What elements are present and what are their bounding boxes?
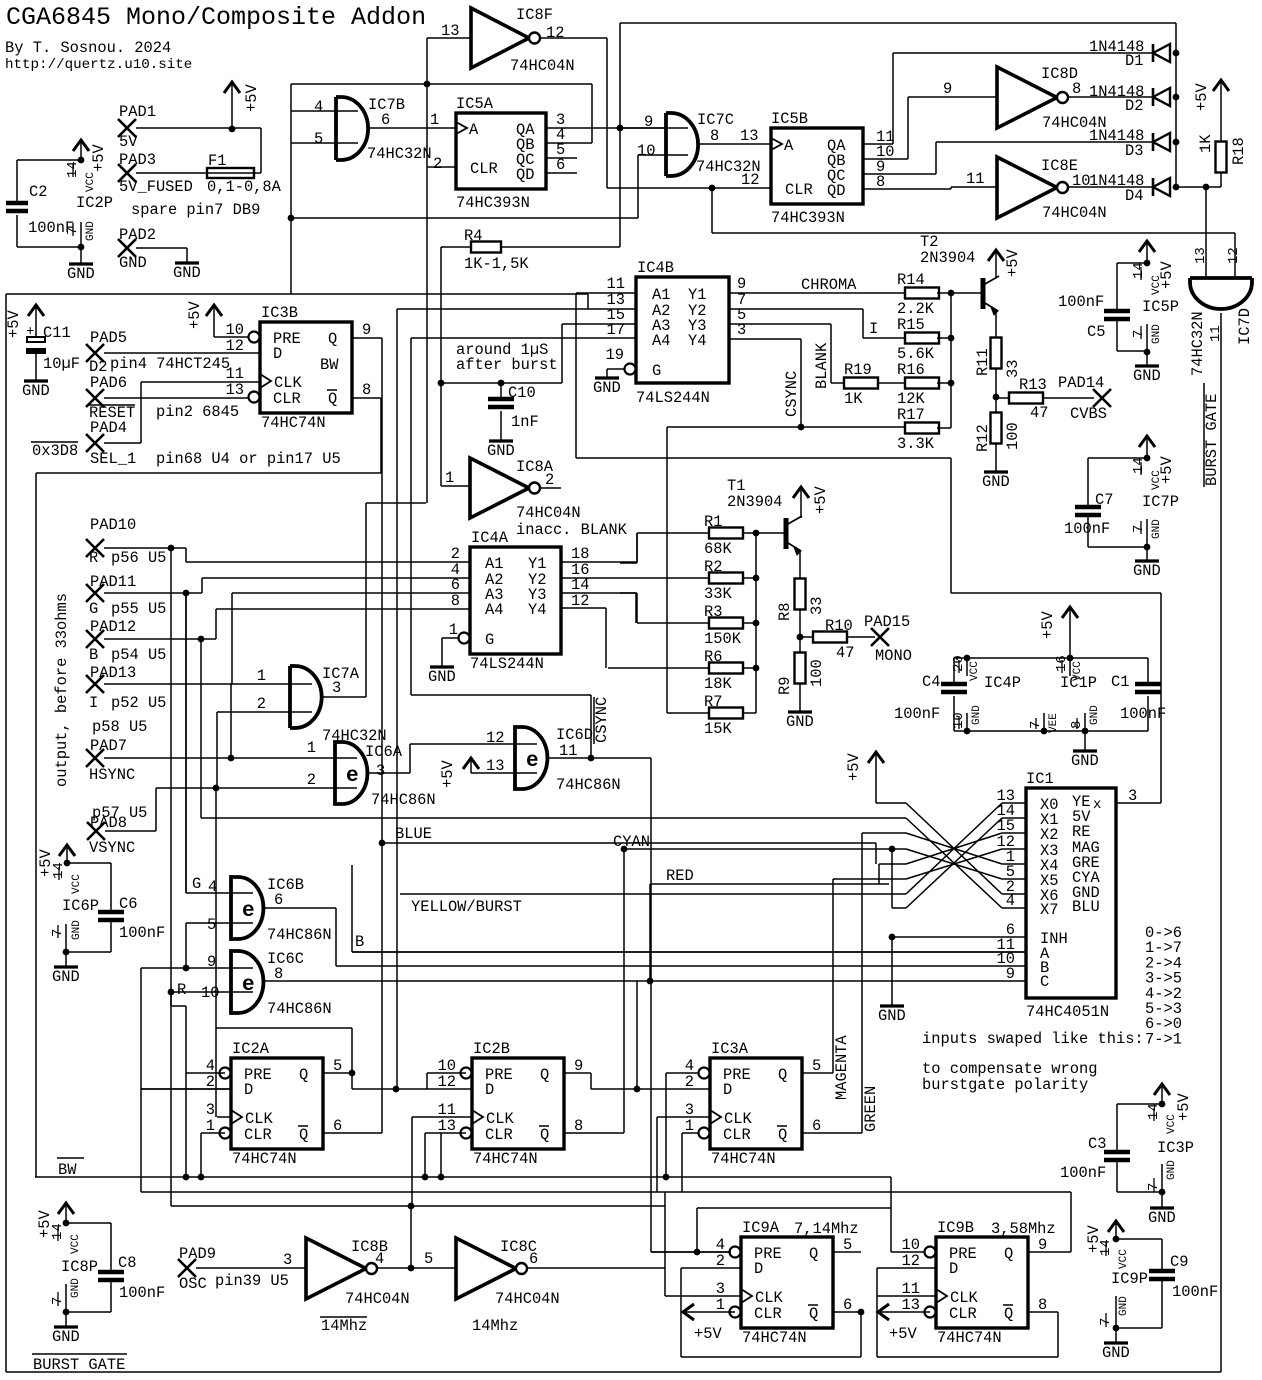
svg-text:8: 8 [1072,80,1081,98]
svg-text:12: 12 [438,1073,456,1091]
wire IC5B QA to D1 [863,143,893,145]
svg-text:D2: D2 [1125,97,1143,115]
svg-text:150K: 150K [704,630,742,648]
wire IC2B Q [563,1072,591,1074]
wire D4 to R18 [1176,186,1221,188]
vcc pin IC1P [1069,658,1071,676]
svg-text:QD: QD [827,182,845,200]
svg-text:IC1P: IC1P [1060,674,1097,692]
wire csync down to IC9A PRE [650,758,652,1252]
flip-flop IC9A [741,1237,833,1328]
svg-text:CLR: CLR [470,160,498,178]
svg-text:GND: GND [1102,1344,1130,1362]
svg-text:74HC74N: 74HC74N [232,1150,297,1168]
svg-text:+5V: +5V [1004,249,1022,277]
svg-text:10: 10 [637,142,655,160]
svg-text:IC5A: IC5A [456,95,494,113]
svg-text:D4: D4 [1125,187,1143,205]
resistor R8 [795,579,806,610]
svg-text:+5V: +5V [1158,261,1176,289]
svg-text:+5V: +5V [1175,1093,1193,1121]
svg-text:GND: GND [1151,519,1163,539]
svg-text:CLR: CLR [785,181,813,199]
wire IC9A D loop [681,1267,741,1269]
svg-text:+5V: +5V [1158,456,1176,484]
svg-text:IC9P: IC9P [1111,1270,1148,1288]
svg-text:100: 100 [808,659,826,687]
svg-text:33: 33 [808,597,826,615]
wire feeds to crossing [876,802,906,804]
svg-text:GND: GND [52,1328,80,1346]
svg-text:74HC74N: 74HC74N [261,414,326,432]
svg-text:CLR: CLR [485,1126,513,1144]
wire to IC7D pin13 [1205,187,1207,278]
svg-text:Q: Q [809,1305,818,1323]
svg-text:+5V: +5V [5,310,23,338]
ground under power block [1084,731,1086,751]
svg-text:A: A [784,137,794,155]
svg-text:74HC74N: 74HC74N [473,1150,538,1168]
wire PAD1 to +5V [136,127,261,129]
svg-text:D: D [949,1260,958,1278]
svg-text:GND: GND [1148,1209,1176,1227]
wire IC9A CLK [665,1295,741,1297]
inverter IC8D [997,67,1057,128]
svg-text:IC3P: IC3P [1157,1139,1194,1157]
wire IC6B pin5 [186,922,253,924]
svg-text:74HC74N: 74HC74N [711,1150,776,1168]
wire csync gating net [411,337,636,339]
counter IC5A [456,113,546,189]
wire IC8C out [527,1267,665,1269]
svg-text:B: B [89,646,98,664]
svg-text:100: 100 [1004,422,1022,450]
svg-text:74LS244N: 74LS244N [636,389,710,407]
svg-text:OSC: OSC [179,1275,207,1293]
wire T1 emitter to R8 [799,551,801,579]
wire IC6D output CSYNC [547,757,651,759]
svg-text:G: G [192,875,201,893]
svg-text:R14: R14 [897,271,925,289]
svg-text:By T. Sosnou. 2024: By T. Sosnou. 2024 [5,39,171,57]
gnd pin IC1P [1084,713,1086,731]
svg-text:6: 6 [381,111,390,129]
svg-text:I: I [869,320,878,338]
flip-flop IC2A [231,1058,323,1149]
wire cyan net [623,849,625,1133]
wire preset net [890,1177,892,1208]
svg-text:IC7P: IC7P [1142,493,1179,511]
svg-text:YELLOW/BURST: YELLOW/BURST [411,898,522,916]
svg-text:C4: C4 [922,673,940,691]
wire top bus y84 [291,83,592,85]
svg-text:BLU: BLU [1072,898,1100,916]
svg-text:100nF: 100nF [1120,705,1166,723]
resistor R9 [799,637,801,653]
svg-text:1: 1 [307,739,316,757]
or-gate IC7A [290,666,322,728]
wire bus y218 [291,217,638,219]
wire left bus y294 [6,293,588,295]
resistor R11 [991,338,1002,369]
svg-text:13: 13 [226,381,244,399]
svg-text:100nF: 100nF [1060,1164,1106,1182]
svg-text:19: 19 [606,346,624,364]
svg-text:PAD6: PAD6 [90,374,127,392]
svg-text:D: D [723,1081,732,1099]
svg-text:10: 10 [1072,172,1090,190]
svg-text:IC5P: IC5P [1142,298,1179,316]
ground under IC2P [80,247,82,264]
svg-text:74HC86N: 74HC86N [267,926,332,944]
svg-text:output, before 33ohms: output, before 33ohms [53,593,71,787]
svg-text:IC4A: IC4A [471,529,509,547]
svg-text:C1: C1 [1111,673,1129,691]
svg-text:X7: X7 [1040,901,1058,919]
svg-text:A: A [469,121,479,139]
svg-text:I: I [89,694,98,712]
vee pin IC1P [1043,713,1045,731]
wire b net [351,865,353,952]
svg-text:11: 11 [966,170,984,188]
wire C2 to IC2P [17,159,81,161]
wire IC8A output [540,487,561,489]
svg-text:C2: C2 [29,183,47,201]
power arrow +5V at T2 [988,250,1004,261]
wire I net [104,683,232,685]
svg-text:R9: R9 [776,677,794,695]
svg-text:1K-1,5K: 1K-1,5K [464,255,529,273]
buffer IC4A 74LS244 [470,547,561,654]
or-gate IC7C [666,113,698,176]
svg-text:74HC86N: 74HC86N [556,776,621,794]
svg-text:10: 10 [201,984,219,1002]
svg-text:8: 8 [362,381,371,399]
wire IC7D output burst gate [1220,313,1222,1372]
svg-text:100nF: 100nF [1064,520,1110,538]
svg-text:IC9B: IC9B [937,1219,974,1237]
svg-text:3.3K: 3.3K [897,435,935,453]
wires IC4B inputs [576,292,636,294]
svg-text:Q: Q [809,1245,818,1263]
svg-text:PAD10: PAD10 [90,516,136,534]
wire IC9B D CLK loop [877,1267,936,1269]
svg-text:Q: Q [299,1066,308,1084]
svg-text:burstgate polarity: burstgate polarity [922,1076,1088,1094]
power group IC6P [59,845,75,856]
svg-text:2: 2 [433,155,442,173]
wire bus y1206 [171,1205,665,1207]
wire B net [104,638,201,640]
svg-text:PAD9: PAD9 [179,1245,216,1263]
svg-text:BLANK: BLANK [813,342,831,389]
wire left vert 427 [426,84,428,503]
svg-text:14: 14 [1131,457,1147,474]
svg-text:R18: R18 [1230,137,1248,165]
svg-text:IC6P: IC6P [62,897,99,915]
svg-text:QD: QD [516,166,534,184]
wire red net [650,883,889,885]
wire IC1 INH [892,936,1026,938]
svg-text:MONO: MONO [875,647,912,665]
capacitor C2 [6,201,28,206]
svg-text:10µF: 10µF [43,355,80,373]
svg-text:47: 47 [1030,404,1048,422]
wire HSYNC net [104,757,357,759]
ground under IC1 [891,937,893,1006]
svg-text:Q: Q [540,1126,549,1144]
svg-text:12: 12 [486,729,504,747]
svg-text:IC5B: IC5B [771,110,808,128]
svg-text:7: 7 [1131,525,1147,533]
svg-text:p52 U5: p52 U5 [111,694,166,712]
svg-text:D: D [754,1260,763,1278]
svg-text:R16: R16 [897,361,925,379]
svg-text:6: 6 [274,891,283,909]
svg-text:GND: GND [71,920,83,940]
power flag IC2P [73,140,89,151]
svg-text:GND: GND [70,1278,82,1298]
svg-text:2N3904: 2N3904 [727,493,782,511]
svg-text:IC6C: IC6C [267,950,304,968]
ground under C11 [24,379,48,382]
wire IC6B output [263,907,336,909]
svg-text:PAD7: PAD7 [90,737,127,755]
svg-text:IC2B: IC2B [473,1040,510,1058]
wires IC2B pins [427,1072,466,1074]
wire IC9B Q [1028,1251,1071,1253]
svg-text:pin39 U5: pin39 U5 [215,1272,289,1290]
svg-text:13: 13 [740,127,758,145]
power arrow +5V at IC6D pin13 [463,758,479,769]
svg-text:e: e [526,750,539,773]
wires C7 to IC7P [1088,457,1147,459]
svg-text:CLR: CLR [244,1126,272,1144]
svg-text:A4: A4 [652,332,670,350]
svg-text:IC6B: IC6B [267,876,304,894]
wire VSYNC net [105,830,156,832]
svg-text:13: 13 [1193,247,1209,264]
svg-text:C11: C11 [43,324,71,342]
wire IC7A output [322,696,366,698]
svg-text:14Mhz: 14Mhz [321,1317,367,1335]
svg-text:PAD2: PAD2 [119,226,156,244]
svg-text:BW: BW [320,356,339,374]
svg-text:12: 12 [546,24,564,42]
svg-text:74HC74N: 74HC74N [742,1329,807,1347]
wire IC1 A [352,951,1026,953]
wire bus BW y1177 [35,1176,891,1178]
ground under IC6P [65,952,67,967]
wire IC8F output to IC5B CLR [540,37,607,39]
svg-text:e: e [346,765,359,788]
svg-text:5: 5 [314,130,323,148]
svg-text:74HC04N: 74HC04N [1042,204,1107,222]
svg-text:MAGENTA: MAGENTA [833,1035,851,1100]
svg-text:GND: GND [1071,752,1099,770]
inverter IC8F [471,8,529,68]
svg-text:CLR: CLR [273,390,301,408]
wires IC2A pins [186,1072,225,1074]
svg-text:A4: A4 [485,601,503,619]
svg-text:CVBS: CVBS [1070,405,1107,423]
svg-text:6: 6 [529,1250,538,1268]
flip-flop IC2B [472,1058,564,1149]
svg-text:2: 2 [685,1073,694,1091]
capacitor C11 electrolytic [28,305,44,316]
crossing input wires IC1 [906,803,1002,894]
wire blue net from Q [381,338,383,1133]
ground under IC8P [65,1312,67,1327]
wire PAD2 to ground [136,247,187,249]
wire IC5B QD to IC8E [863,188,951,190]
resistor R12 [995,397,997,413]
svg-text:D: D [273,345,282,363]
power arrow +5V at T1 [793,487,809,498]
svg-text:3: 3 [1128,787,1137,805]
wire left vertical to IC7B [290,84,292,218]
svg-text:CSYNC: CSYNC [783,371,801,417]
svg-text:+5V: +5V [694,1325,722,1343]
svg-text:C3: C3 [1088,1135,1106,1153]
wire PAD9 to IC8B [196,1267,306,1269]
svg-text:1: 1 [430,111,439,129]
wire IC2B Qbar [563,1132,624,1134]
svg-text:http://quertz.u10.site: http://quertz.u10.site [5,57,192,73]
wire IC6A out to IC6D [367,772,410,774]
wire diode cathode bus [1175,53,1177,187]
svg-text:9: 9 [362,321,371,339]
svg-text:IC8P: IC8P [61,1258,98,1276]
svg-text:R8: R8 [776,603,794,621]
svg-text:74HC86N: 74HC86N [267,1000,332,1018]
wire IC8A input [440,383,442,486]
wire IC3A Qbar green [802,1132,862,1134]
wire R1-R7 junction column [755,533,757,713]
wire T1 base [756,532,784,534]
svg-text:1: 1 [257,667,266,685]
wire IC9A Q stub [833,1251,861,1253]
svg-text:2: 2 [545,471,554,489]
svg-text:GND: GND [173,264,201,282]
svg-text:SEL_1: SEL_1 [90,450,136,468]
svg-text:PAD12: PAD12 [90,618,136,636]
svg-text:G: G [89,600,98,618]
svg-text:1nF: 1nF [511,413,539,431]
wires C6 to IC6P [67,862,111,864]
svg-text:IC4P: IC4P [984,674,1021,692]
svg-text:PAD14: PAD14 [1058,374,1104,392]
svg-text:15K: 15K [704,720,732,738]
svg-text:4: 4 [375,1250,384,1268]
svg-text:after burst: after burst [456,356,558,374]
svg-text:+5V: +5V [889,1325,917,1343]
svg-text:12: 12 [741,171,759,189]
wire R9 to gnd [799,683,801,712]
svg-text:PAD1: PAD1 [119,103,156,121]
wire CHROMA [729,292,907,294]
svg-text:74HC04N: 74HC04N [510,57,575,75]
svg-text:+5V: +5V [1039,611,1057,639]
wire IC2A Qbar [323,1132,382,1134]
svg-text:GND: GND [1118,1296,1130,1316]
wires C9 to IC9P [1116,1238,1162,1240]
svg-text:Q: Q [1004,1245,1013,1263]
svg-text:4: 4 [314,98,323,116]
svg-text:R: R [177,981,186,999]
svg-text:GND: GND [593,379,621,397]
svg-text:GND: GND [1133,367,1161,385]
wire PAD5 to IC3B D [104,352,260,354]
wire PAD4 to IC3B CLK [104,442,141,444]
svg-text:33K: 33K [704,585,732,603]
power group IC7P [1139,436,1155,447]
svg-text:5V: 5V [119,133,138,151]
svg-text:74HC32N: 74HC32N [1189,311,1207,376]
wire IC7C output [698,143,771,145]
svg-text:13: 13 [486,757,504,775]
svg-text:100nF: 100nF [119,1284,165,1302]
svg-text:IC3A: IC3A [711,1040,749,1058]
svg-text:Y4: Y4 [528,601,546,619]
left border wire [5,294,7,1372]
svg-text:G: G [485,631,494,649]
svg-text:+5V: +5V [812,486,830,514]
svg-text:BURST GATE: BURST GATE [1203,394,1221,486]
svg-text:7,14Mhz: 7,14Mhz [794,1220,859,1238]
svg-text:74LS244N: 74LS244N [470,655,544,673]
svg-text:Q: Q [1004,1305,1013,1323]
svg-text:3: 3 [332,679,341,697]
wire bus y1192 [141,1191,1071,1193]
svg-text:2: 2 [257,695,266,713]
power group IC5P [1139,241,1155,252]
svg-text:R12: R12 [974,424,992,452]
svg-text:C8: C8 [118,1254,136,1272]
wires C5 to IC5P [1117,262,1147,264]
wire IC9B Qbar [1028,1311,1058,1313]
svg-text:0,1-0,8A: 0,1-0,8A [207,178,282,196]
svg-text:5V_FUSED: 5V_FUSED [119,178,193,196]
svg-text:0x3D8: 0x3D8 [32,442,78,460]
svg-text:74HC4051N: 74HC4051N [1026,1003,1109,1021]
svg-text:GND: GND [85,221,97,241]
wire IC5B QC to D3 [863,173,936,175]
svg-text:14Mhz: 14Mhz [472,1317,518,1335]
power arrow +5V top [224,82,240,93]
svg-text:CGA6845 Mono/Composite Addon: CGA6845 Mono/Composite Addon [6,3,426,32]
svg-text:+5V: +5V [439,760,457,788]
svg-text:3,58Mhz: 3,58Mhz [991,1220,1056,1238]
svg-text:IC9A: IC9A [742,1219,780,1237]
svg-text:R15: R15 [897,316,925,334]
svg-text:C: C [1040,973,1049,991]
xor IC6B [231,877,263,939]
svg-text:R17: R17 [897,406,925,424]
svg-text:pin68 U4 or pin17 U5: pin68 U4 or pin17 U5 [156,450,341,468]
wire top net to diodes [619,23,621,128]
svg-text:PAD4: PAD4 [90,419,127,437]
wire R net [104,547,171,549]
wire I signal [729,308,863,310]
wire IC7C inputs [620,127,688,129]
svg-text:HSYNC: HSYNC [89,766,135,784]
svg-text:GND: GND [52,968,80,986]
svg-text:G: G [652,362,661,380]
wire G net [104,592,186,594]
wire T2 emitter to R11 [995,311,997,338]
wire yellow net [400,893,906,895]
